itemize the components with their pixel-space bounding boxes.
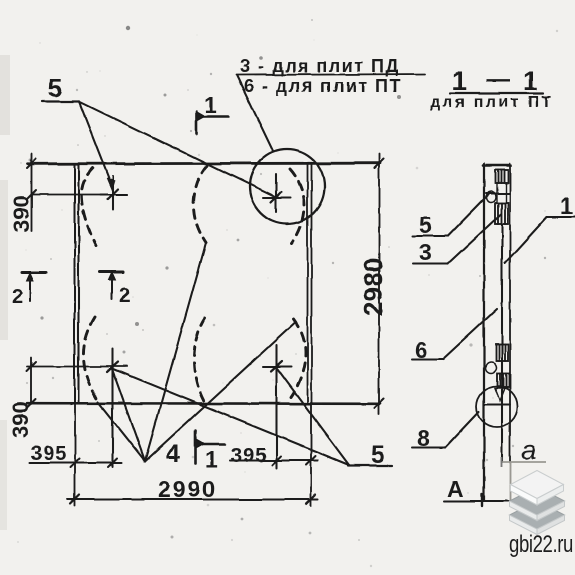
tick <box>307 456 316 465</box>
svg-text:3: 3 <box>419 239 432 265</box>
extension line right <box>310 403 312 506</box>
dim line 390 top <box>32 194 128 196</box>
dim line 390 bottom <box>27 366 127 368</box>
right dimension chain line <box>378 154 380 414</box>
top loop anchor : hatched box upper <box>495 170 508 183</box>
plate top edge <box>28 162 380 165</box>
tick <box>27 159 36 168</box>
svg-text:6: 6 <box>415 337 428 363</box>
svg-text:390: 390 <box>9 195 34 232</box>
left void curve lower <box>83 317 98 401</box>
section mark 2 left <box>22 271 46 274</box>
title 1-1 underline <box>450 92 543 94</box>
svg-text:2: 2 <box>12 286 23 308</box>
tick <box>307 495 316 504</box>
leader bottom 5 to bottom-right loop <box>276 367 349 465</box>
leader bottom 5 to bottom-left loop <box>113 369 349 465</box>
dim line a <box>501 461 546 463</box>
tick <box>27 190 36 199</box>
svg-text:5: 5 <box>371 441 385 469</box>
label 4 leader to right void <box>145 323 295 461</box>
leader from note to circle <box>237 76 273 151</box>
base line under A <box>444 500 512 502</box>
plate left edge (double line) <box>74 164 76 404</box>
dim line 395 left <box>29 462 122 464</box>
logo slab 2 (middle) <box>510 487 565 521</box>
dim line 395 right <box>230 459 318 461</box>
dim line 2990 <box>68 498 318 500</box>
centre void curve upper <box>194 166 208 243</box>
dimension chain left bottom <box>30 358 32 404</box>
rod tapered end <box>495 388 505 401</box>
leader 5 to top-right loop <box>79 102 274 197</box>
svg-text:6 - для плит ПТ: 6 - для плит ПТ <box>244 76 402 96</box>
right void curve upper <box>290 169 305 243</box>
top washer : hatched box lower <box>495 203 508 224</box>
loop cross bottom-left <box>107 349 118 467</box>
svg-text:gbi22.ru: gbi22.ru <box>509 531 573 558</box>
section mark 2 right <box>100 271 123 274</box>
tick <box>71 459 80 468</box>
section mark 1 top <box>195 112 198 134</box>
svg-text:8: 8 <box>417 425 430 451</box>
left void curve upper <box>81 168 96 246</box>
label 5 underline + leader <box>413 235 448 237</box>
svg-text:390: 390 <box>8 401 33 438</box>
label 4 leader to left void end <box>98 402 145 461</box>
light vertical below a <box>510 462 512 500</box>
loop cross bottom-right <box>263 345 291 468</box>
loop cross top-right (in circle) <box>263 174 290 212</box>
label 5 bottom underline <box>348 464 392 466</box>
svg-text:1: 1 <box>523 66 538 96</box>
section mark 1 bottom <box>194 431 197 463</box>
svg-text:1: 1 <box>204 92 217 118</box>
a-dimension light lines <box>501 457 546 500</box>
svg-text:1: 1 <box>560 193 573 219</box>
loop cross top-left <box>101 176 127 210</box>
plate bottom edge <box>27 402 380 405</box>
detail circle around top-right loop <box>250 149 325 224</box>
tick <box>375 159 384 168</box>
label 4 leader to bottom-left loop <box>112 369 145 461</box>
note 3/6 underline <box>236 74 425 75</box>
top anchor bearing line <box>486 193 510 195</box>
top anchor channel verticals <box>497 183 507 203</box>
tick <box>27 399 36 408</box>
label 3 underline + leader <box>413 263 448 265</box>
centre void curve lower <box>194 318 205 403</box>
svg-text:2980: 2980 <box>358 257 388 316</box>
top loop wire blob <box>487 192 496 203</box>
detail circle bottom <box>477 386 518 427</box>
bottom loop wire blob <box>486 363 497 374</box>
logo slab 1 (top) <box>511 471 564 506</box>
tick <box>375 399 384 408</box>
section outer right edge <box>509 164 511 462</box>
tick <box>272 456 281 465</box>
section top edge <box>483 164 511 167</box>
label 4 leader to centre void <box>145 243 206 461</box>
svg-text:3 - для плит ПД: 3 - для плит ПД <box>240 56 400 76</box>
svg-text:для плит ПТ: для плит ПТ <box>430 94 554 111</box>
svg-text:А: А <box>447 476 464 502</box>
tick <box>71 495 80 504</box>
tick <box>108 459 117 468</box>
paper speckle noise patches <box>0 26 499 539</box>
tick <box>27 362 36 371</box>
label 5 top underline <box>42 100 79 102</box>
label 8 underline + leader <box>412 447 445 449</box>
bottom bearing line <box>484 404 510 406</box>
section inner vertical <box>501 224 503 462</box>
extension line left <box>74 403 76 506</box>
svg-text:5: 5 <box>48 73 62 103</box>
label 6 underline + leader <box>412 358 443 360</box>
tick on base line <box>481 494 483 506</box>
left dimension chain line top <box>31 154 33 231</box>
svg-text:—: — <box>486 66 510 93</box>
svg-text:2990: 2990 <box>158 476 217 502</box>
svg-text:5: 5 <box>419 212 432 238</box>
svg-text:4: 4 <box>166 440 180 468</box>
tick of a <box>501 457 503 467</box>
section outer left edge <box>483 164 485 500</box>
bottom anchor hatched box <box>496 344 508 361</box>
bottom washer hatched box <box>497 374 509 387</box>
svg-text:2: 2 <box>119 285 130 307</box>
svg-text:a: a <box>521 434 537 465</box>
label 1 underline + leader <box>547 216 575 218</box>
plate right edge (double line) <box>307 164 309 404</box>
logo slab 3 (bottom) <box>510 501 565 535</box>
svg-text:1: 1 <box>205 446 218 472</box>
arrowhead of 5 leader <box>107 178 115 190</box>
svg-text:395: 395 <box>231 445 267 467</box>
svg-text:395: 395 <box>31 443 67 465</box>
leader 5 to top-left loop <box>79 102 112 187</box>
right void curve lower <box>291 319 306 397</box>
svg-text:1: 1 <box>452 66 467 96</box>
